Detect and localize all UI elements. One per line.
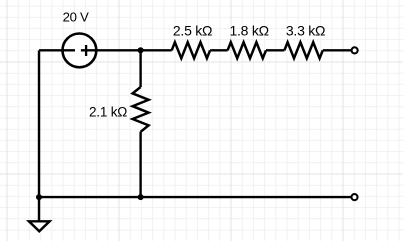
wire: V1 positive side through right to resistor R1 — [81, 49, 172, 51]
wire: R1 to R2 — [210, 49, 228, 51]
svg-text:2.5 kΩ: 2.5 kΩ — [173, 23, 212, 39]
svg-text:20 V: 20 V — [63, 10, 89, 25]
wire: left vertical branch — [38, 50, 40, 197]
resistor R1 2.5 kOhm — [172, 42, 210, 58]
ground symbol — [29, 221, 50, 231]
wire: left node to V1 negative terminal — [39, 49, 75, 51]
svg-text:2.1 kΩ: 2.1 kΩ — [89, 104, 127, 119]
resistor R4 2.1 kOhm (vertical) — [133, 87, 149, 132]
wire: bottom rail — [39, 196, 351, 198]
svg-text:3.3 kΩ: 3.3 kΩ — [286, 23, 325, 39]
junction dot bottom of R4 — [138, 194, 144, 200]
wire: ground stub — [38, 197, 40, 222]
resistor R3 3.3 kOhm — [284, 42, 322, 58]
bottom open terminal — [351, 194, 357, 200]
junction dot ground node — [36, 194, 42, 200]
wire: R2 to R3 — [266, 49, 284, 51]
wire: R4 down to bottom wire — [139, 132, 141, 197]
top open terminal — [352, 47, 358, 53]
resistor R2 1.8 kOhm — [228, 42, 266, 58]
wire: R3 to top terminal — [323, 49, 351, 51]
node A junction dot (top of R4) — [138, 47, 144, 53]
svg-text:1.8 kΩ: 1.8 kΩ — [230, 23, 269, 39]
V1 plus sign vertical bar — [85, 45, 87, 56]
wire: node A down to R4 — [139, 50, 141, 87]
voltage source V1 body — [63, 34, 97, 68]
